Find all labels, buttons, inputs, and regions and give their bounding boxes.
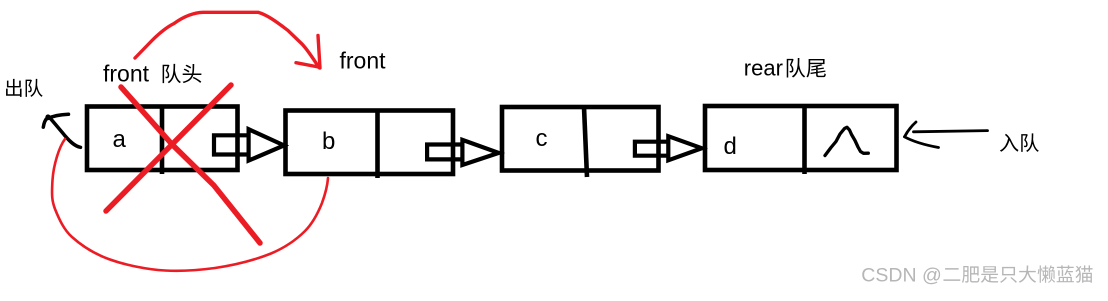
svg-text:a: a [113,126,127,153]
svg-text:front: front [103,60,150,86]
pointer block arrow b to c [427,140,499,165]
label rear duiwei (queue tail) [744,56,826,81]
label rudui (enqueue) [1000,133,1039,152]
svg-text:d: d [724,133,737,160]
node b box [286,111,454,179]
red arc bottom: old head unlinked [52,139,328,271]
svg-text:rear: rear [744,56,783,81]
node a box [87,107,238,175]
CSDN watermark [861,264,1094,287]
red arrowhead of top arc [296,36,320,69]
node d box [705,106,897,174]
svg-text:b: b [322,128,335,155]
hand-drawn enqueue arrow (right) [905,122,988,148]
svg-text:c: c [536,125,548,152]
red X stroke (backslash) over node a [121,87,260,243]
svg-text:front: front [340,48,387,74]
null pointer squiggle in node d [825,127,868,155]
pointer block arrow a to b [214,129,284,160]
pointer block arrow c to d [635,136,702,160]
hand-drawn dequeue arrow (top-left) [43,114,80,147]
label chuidui (dequeue) [6,79,43,97]
red X stroke (slash) over node a [106,85,231,211]
red arc: front moves from a to next (top) [135,12,319,67]
label front duitou (queue head) [103,60,201,86]
node c box [502,107,659,177]
svg-text:CSDN @: CSDN @ [861,264,941,286]
